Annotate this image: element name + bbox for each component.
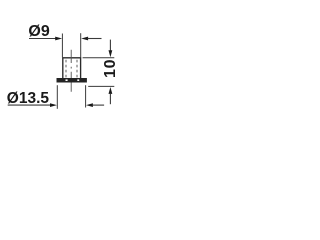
- svg-text:Ø9: Ø9: [28, 23, 49, 40]
- cup body outline (left wall, top edge, right wall): [62, 58, 81, 78]
- arrowhead Ø9 right (points left): [81, 37, 88, 41]
- dimension line Ø9 (left, under text): [29, 38, 56, 40]
- extension line 10-dim top: [83, 57, 115, 59]
- dimension tail Ø9 right: [88, 38, 102, 40]
- flange white notch left: [66, 79, 68, 81]
- vertical centerline: [70, 50, 72, 92]
- extension line Ø13.5 right: [85, 85, 87, 107]
- arrowhead 10-dim top (points down): [109, 50, 113, 57]
- extension line Ø9 right: [80, 33, 82, 57]
- arrowhead Ø9 left (points right): [55, 37, 62, 41]
- extension line 10-dim bottom: [88, 85, 114, 87]
- flange white notch right: [77, 79, 79, 81]
- extension line Ø13.5 left: [56, 85, 58, 109]
- svg-text:10: 10: [102, 59, 119, 78]
- dimension tail Ø13.5 right: [92, 104, 104, 106]
- arrow stem 10-dim top: [109, 40, 111, 52]
- svg-text:Ø13.5: Ø13.5: [7, 90, 50, 107]
- hidden bore line right (dashed): [76, 60, 78, 78]
- dimension line Ø13.5: [8, 104, 51, 106]
- arrowhead 10-dim bottom (points up): [109, 87, 113, 94]
- hidden bore line left (dashed): [65, 60, 67, 78]
- extension line Ø9 left: [61, 34, 63, 58]
- flange (filled bar): [57, 78, 87, 83]
- arrow stem 10-dim bottom: [109, 93, 111, 104]
- arrowhead Ø13.5 left (points right): [50, 103, 57, 107]
- arrowhead Ø13.5 right (points left): [86, 103, 93, 107]
